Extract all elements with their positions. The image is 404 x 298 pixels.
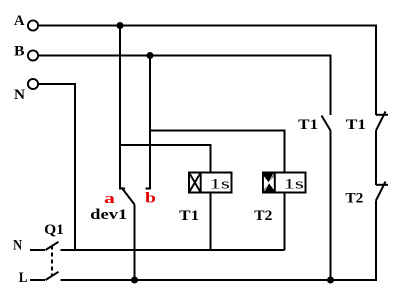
wire L terminal stub at Q1 xyxy=(30,279,45,281)
terminal A xyxy=(28,20,38,30)
timer T1 box xyxy=(189,173,232,193)
svg-text:T1: T1 xyxy=(298,117,318,133)
switch dev1: common vertical down to L bus xyxy=(134,205,136,281)
svg-text:T2: T2 xyxy=(345,191,363,207)
wire T1 coil bottom xyxy=(210,193,212,251)
switch T2 NC arm (right branch) xyxy=(376,182,386,201)
switch dev1: contact a foot xyxy=(119,188,125,190)
wire a feed: vertical from A junction down to dev1 contact a xyxy=(119,26,121,189)
switch dev1: contact b foot xyxy=(146,188,152,190)
svg-text:dev1: dev1 xyxy=(90,207,127,223)
wire T2 coil bottom xyxy=(284,193,286,251)
svg-text:T1: T1 xyxy=(179,208,199,224)
wire N: from terminal N right then down to N bus xyxy=(39,84,75,250)
switch dev1: moving arm from a to common xyxy=(122,188,135,205)
svg-text:b: b xyxy=(145,191,156,207)
wire T1 coil feed: branch from a-feed to T1 timer top xyxy=(120,145,211,173)
switch T2 NC bar (right branch) xyxy=(376,184,388,186)
switch Q1 mechanical link (dashed) xyxy=(51,246,53,277)
node junction left T1 branch on L bus xyxy=(327,277,334,284)
wire right branch between contacts xyxy=(375,131,377,186)
svg-text:L: L xyxy=(19,270,28,286)
wire A bus: from terminal A right then down right edge xyxy=(39,26,376,116)
terminal B xyxy=(28,50,38,60)
node junction dev1 common on L bus xyxy=(131,277,138,284)
wire L bus horizontal: from Q1 to right edge up to T2 contact xyxy=(61,201,377,281)
switch Q1 pole L arm xyxy=(46,272,59,280)
svg-text:T2: T2 xyxy=(254,208,272,224)
node junction on B bus xyxy=(147,52,154,59)
wire N terminal stub at Q1 xyxy=(30,249,45,251)
svg-text:1s: 1s xyxy=(209,177,230,193)
switch T1 NO arm (left branch) xyxy=(322,116,331,131)
svg-text:1s: 1s xyxy=(283,177,304,193)
wire b feed: vertical from B junction down to dev1 contact b xyxy=(149,56,151,189)
switch T1 NC arm (right branch) xyxy=(376,112,386,131)
svg-text:A: A xyxy=(14,13,25,29)
terminal N xyxy=(28,79,38,89)
svg-text:B: B xyxy=(14,44,25,60)
wire B bus: from terminal B right then down to T1 switch xyxy=(39,56,331,116)
svg-text:T1: T1 xyxy=(346,117,366,133)
wire left T1 switch lower vertical xyxy=(330,131,332,281)
svg-text:N: N xyxy=(14,87,25,103)
svg-text:a: a xyxy=(104,191,116,207)
wire N bus horizontal xyxy=(61,249,285,251)
wire T2 coil feed: branch from b-feed to T2 timer top xyxy=(150,131,285,173)
timer T2 box xyxy=(262,172,306,194)
svg-text:N: N xyxy=(13,238,22,254)
switch Q1 pole N arm xyxy=(46,242,59,250)
svg-text:Q1: Q1 xyxy=(44,222,64,238)
node junction on A bus xyxy=(117,22,124,29)
switch T1 NC bar (right branch) xyxy=(376,114,388,116)
